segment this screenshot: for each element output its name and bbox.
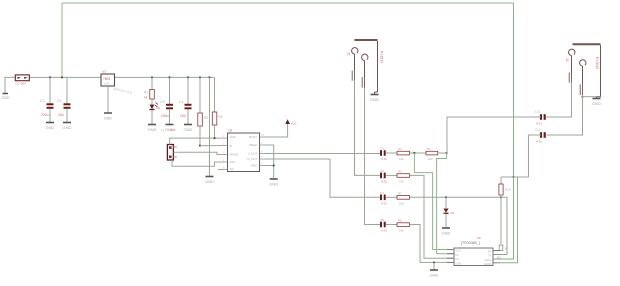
svg-text:4.7u: 4.7u [381,201,387,205]
wire row3 long run to R10 junction [410,196,502,198]
svg-text:4.7u: 4.7u [381,229,387,233]
resistor R10 [499,177,511,195]
wire green down to U2 (right) [500,177,518,263]
svg-text:GND: GND [456,261,462,265]
svg-text:U3: U3 [102,70,106,74]
resistor R5 row1 second [426,147,447,161]
wire J3 tip to cap C11 [546,83,571,117]
wire U1 pin5 stub [218,169,222,171]
resistor R8 row4 [397,219,410,233]
junction node U2 gnd [433,261,435,263]
phone jack J2 [352,40,378,94]
svg-text:R10: R10 [505,188,511,192]
svg-text:C7: C7 [380,191,384,195]
module U2 (TF MP3 player) [447,236,500,266]
svg-text:DC-005: DC-005 [16,82,27,86]
svg-text:GND: GND [430,273,439,278]
svg-text:BEEP: BEEP [249,143,257,147]
DC power connector X1 [15,75,29,86]
capacitor C3 [160,77,173,124]
svg-text:K1: K1 [456,253,460,257]
svg-text:10k: 10k [399,179,404,183]
svg-text:GND: GND [63,125,72,130]
connector J1 (aux input) [161,128,177,160]
svg-text:100u: 100u [161,114,169,118]
wire R10 bottom down to RX resistor [500,197,502,244]
supply VCC symbol [265,119,296,137]
wire cap C12 left lead down to U2 DACL [529,135,542,177]
ground under U1 right [269,179,278,187]
junction node bus/R2 [199,76,201,78]
ground under C2 [63,123,72,131]
svg-text:GND: GND [104,82,110,86]
svg-text:R_OUT: R_OUT [247,157,257,161]
resistor R2 [198,77,209,145]
wire left vertical from top to bus [61,3,63,77]
capacitor C6 row2 [368,169,397,184]
regulator U3 [101,70,132,96]
wire J2 ring to row4 [365,88,369,225]
junction node J3 ring / ground tie [581,96,583,98]
svg-text:R3: R3 [219,115,223,119]
ground under D1 [442,228,451,236]
svg-text:R8: R8 [398,219,402,223]
capacitor C7 row3 [380,191,397,206]
svg-text:K2: K2 [456,257,460,261]
svg-text:GND: GND [269,182,278,187]
svg-text:C6: C6 [380,169,384,173]
svg-text:RX: RX [488,250,492,254]
capacitor C4 [179,77,192,124]
wire J1 pin2 to U1 pin3 [177,152,222,154]
svg-text:C4: C4 [179,100,183,104]
ground under J3 sleeve [592,99,601,107]
svg-text:GND: GND [442,231,451,236]
resistor R7 row3 [397,191,410,205]
junction node bus/C3 [168,76,170,78]
svg-text:103: 103 [428,157,433,161]
junction node bus/top-wire [61,76,63,78]
capacitor C5 row1 [380,147,397,162]
capacitor C11 [535,110,545,126]
svg-text:GND: GND [46,125,55,130]
resistor R4 row1 [397,147,426,161]
wire row4 to U2 GND pin [410,225,455,263]
ground under C1 [46,123,55,131]
capacitor C12 [535,128,545,144]
svg-text:R4: R4 [398,147,402,151]
op-amp U1 (audio decoder IC) [222,129,265,172]
svg-text:C8: C8 [380,218,384,222]
svg-text:R2: R2 [204,116,208,120]
ground under C3 [165,125,174,133]
junction node row1 left [413,152,415,154]
wire J3 ring down to cap C12 [546,95,582,135]
wire J3 ring junction to sleeve gnd [583,96,597,98]
wire row2 to U2 K3 [410,175,455,258]
wire U1 L_OUT to row1 [265,153,380,155]
svg-text:GND: GND [184,127,193,132]
resistor R1 [144,77,154,99]
LED D2 [150,99,161,124]
wire U2 GND pin to ground [433,262,435,269]
svg-text:U1: U1 [229,129,233,133]
svg-text:GND: GND [251,164,259,168]
ground under LED [148,125,157,133]
svg-text:GND: GND [2,96,10,100]
svg-text:1k: 1k [144,96,148,100]
svg-text:R6: R6 [398,169,402,173]
junction node bus/C4 [187,76,189,78]
svg-text:J3: J3 [565,58,569,62]
wire J1 pin1 to U1 AI1 [170,138,222,144]
junction node R10 bottom / row3 [500,196,502,198]
svg-text:PJ-3513: PJ-3513 [380,51,384,63]
wire R10 junction to U2 TX pin [500,197,507,254]
resistor R3 (bus end column) [212,77,223,138]
svg-text:GND: GND [148,127,157,132]
ground under U3 [104,113,112,121]
svg-text:C12: C12 [535,128,541,132]
svg-text:R7: R7 [398,191,402,195]
svg-text:PJ-3513: PJ-3513 [595,57,599,69]
svg-text:104: 104 [180,114,186,118]
ground under U2 [430,270,439,278]
ground under C4 [184,125,193,133]
svg-text:GND: GND [592,101,601,106]
ground under J2 sleeve [370,95,379,103]
svg-text:DACR: DACR [484,262,491,266]
svg-text:C5: C5 [380,147,384,151]
svg-text:VCC: VCC [291,122,297,126]
svg-text:L_OUT: L_OUT [248,152,258,156]
phone jack J3 [569,44,601,98]
wire right vertical from top run down [513,3,515,177]
junction node row1 right [446,152,448,154]
svg-text:C1: C1 [40,99,44,103]
capacitor C8 row4 [368,218,397,233]
svg-text:10k: 10k [399,157,404,161]
svg-text:VCC: VCC [456,249,462,253]
svg-text:AVD: AVD [230,160,237,164]
svg-text:4.7u: 4.7u [381,179,387,183]
wire green down to U2 (left) [500,177,514,259]
svg-text:10k: 10k [399,229,404,233]
resistor R6 row2 [397,169,410,183]
svg-text:7805: 7805 [103,77,110,81]
svg-text:[TF0008B_]: [TF0008B_] [461,241,480,245]
svg-text:10k: 10k [399,201,404,205]
svg-text:U2: U2 [477,236,481,240]
wire row1 up to cap C11 lead [447,117,541,153]
wire U1 pin6 gnd [265,166,274,179]
svg-text:R5: R5 [427,147,431,151]
junction node green tee [512,176,514,178]
wire U3 GND pin [107,86,109,113]
ground mid column [205,177,214,185]
ground G1 (left of DC jack) [2,77,16,100]
wire cap C11 left lead [447,116,541,118]
svg-text:AUX: AUX [170,128,176,132]
svg-text:MODE: MODE [230,153,239,157]
svg-text:AI: AI [230,144,233,148]
svg-text:4.7u: 4.7u [536,140,542,144]
wire R2 column to U1 pin2 [200,145,222,147]
junction node bus/R1 [151,76,153,78]
wire main power bus [29,76,214,78]
svg-text:BUSY: BUSY [249,135,257,139]
capacitor C1 [40,77,54,122]
svg-text:AG: AG [230,167,235,171]
junction node bus/GND column [208,76,210,78]
resistor R11 (serial RX) [493,245,508,260]
wire J1 pin3 bottom run to U1 pin4 [172,160,222,166]
svg-text:VDD: VDD [230,135,237,139]
wire U1 pin9 to gnd join [265,145,274,166]
wire U1 R_OUT to row3 [265,159,380,197]
junction node R3 column on AI1 wire [213,137,215,139]
svg-text:R1: R1 [144,91,148,95]
wire gnd column [209,77,211,176]
svg-text:220u: 220u [41,113,49,117]
svg-text:GND: GND [205,179,214,184]
svg-text:104: 104 [58,113,64,117]
svg-text:4.7u: 4.7u [536,122,542,126]
junction node R2 column pin2 wire [199,145,201,147]
svg-text:C3: C3 [160,100,164,104]
svg-text:DACL: DACL [485,258,492,262]
wire J2 tip to row2 [355,81,369,176]
wire row1-left tap down to U2 K1 (green) [414,153,454,250]
svg-text:TX: TX [488,254,492,258]
svg-text:C11: C11 [535,110,541,114]
svg-text:D2: D2 [157,106,161,110]
wire row1-right tap down to U2 K2 (green) [437,153,454,254]
wire top horizontal VCC run [62,2,514,4]
svg-text:J1: J1 [161,128,164,132]
diode D1 [444,196,455,227]
junction node pin9/pin6 [273,164,275,166]
wire adkey horizontal [501,176,529,178]
svg-text:D1: D1 [451,211,455,215]
svg-text:GND: GND [370,97,379,102]
svg-text:C2: C2 [57,99,61,103]
svg-text:J2: J2 [347,52,351,56]
junction node bus/C1 [49,76,51,78]
svg-text:GND: GND [104,117,112,121]
capacitor C2 [57,77,71,122]
svg-text:4.7u: 4.7u [381,157,387,161]
